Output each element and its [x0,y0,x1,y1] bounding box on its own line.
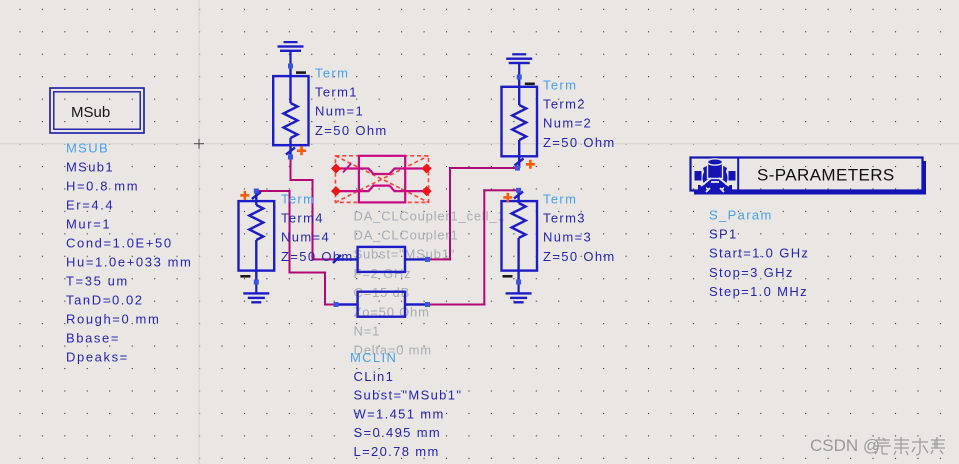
minus Term2 [525,83,535,86]
ghost text DA_CLCoupler1 parameters (deactivated) [354,208,506,357]
coupler inner symbol [336,156,427,203]
svg-text:H=0.8 mm: H=0.8 mm [66,179,139,194]
coupler port diamonds [331,164,432,197]
svg-text:Term3: Term3 [543,211,586,226]
svg-text:Term2: Term2 [543,97,586,112]
term Term3 [502,190,538,282]
svg-text:MSub: MSub [71,104,110,121]
coupler DA_CLCoupler1 deactivated box [335,156,428,203]
svg-text:Term1: Term1 [315,85,358,100]
label Term4 values [281,191,354,264]
svg-text:Subst="MSub1": Subst="MSub1" [354,388,463,403]
axis horizontal line [0,143,959,144]
svg-text:DA_CLCoupler1_cell_1: DA_CLCoupler1_cell_1 [354,208,506,223]
svg-text:Cond=1.0E+50: Cond=1.0E+50 [66,236,173,251]
svg-text:Term4: Term4 [281,211,324,226]
term Term2 [502,77,538,168]
term Term1 [273,66,308,157]
wire W3 Term2 to CLin1 pin2 [428,167,519,260]
node Term3 top [516,188,521,193]
node Term2 bottom [515,166,520,171]
svg-text:Mur=1: Mur=1 [66,217,111,232]
svg-text:TanD=0.02: TanD=0.02 [66,293,144,308]
MSub box [50,88,144,133]
node Term4 top [254,189,259,194]
wire W4 Term3 to CLin1 pin4 [428,189,519,305]
svg-text:Num=1: Num=1 [315,104,364,119]
plus Term2 [526,160,535,169]
svg-text:S_Param: S_Param [709,207,773,222]
svg-text:S-PARAMETERS: S-PARAMETERS [757,166,895,185]
label Term2 values [543,77,616,150]
svg-text:SP1: SP1 [709,227,738,242]
term Term4 [239,191,275,282]
svg-text:Term: Term [281,191,315,206]
svg-text:Bbase=: Bbase= [66,331,120,346]
origin marker [194,139,204,149]
ground G3 Term3 bottom [506,282,532,304]
svg-text:Stop=3 GHz: Stop=3 GHz [709,265,794,280]
node Term2 top [517,75,522,80]
svg-text:F=2 GHz: F=2 GHz [354,266,412,281]
ground G2 Term2 top [506,53,532,77]
svg-text:Term: Term [315,65,349,80]
svg-text:L=20.78 mm: L=20.78 mm [354,444,440,459]
svg-text:Term: Term [543,77,577,92]
plus Term3 [503,193,512,202]
svg-text:Step=1.0 MHz: Step=1.0 MHz [709,284,808,299]
svg-text:Num=4: Num=4 [281,230,330,245]
svg-text:Rough=0 mm: Rough=0 mm [66,312,160,327]
label S_Param values [709,207,809,299]
node Term1 bottom [288,155,293,160]
svg-text:CLin1: CLin1 [354,369,395,384]
svg-text:Start=1.0 GHz: Start=1.0 GHz [709,246,809,261]
node Term1 top [288,64,293,69]
svg-text:Num=2: Num=2 [543,116,592,131]
svg-text:T=35 um: T=35 um [66,274,129,289]
label Term1 values [315,65,388,138]
minus Term1 [296,71,306,74]
svg-text:Z=50 Ohm: Z=50 Ohm [281,249,354,264]
svg-text:Er=4.4: Er=4.4 [66,198,114,213]
svg-text:W=1.451 mm: W=1.451 mm [354,406,445,421]
S-PARAMETERS controller box [691,158,927,195]
svg-text:Num=3: Num=3 [543,230,592,245]
svg-text:Z=50 Ohm: Z=50 Ohm [315,123,388,138]
plus Term1 [297,146,306,155]
coupler pin1 tick [343,164,351,173]
wire W2 Term4 to CLin1 pin3 [256,190,337,306]
svg-text:Z=50 Ohm: Z=50 Ohm [543,249,616,264]
label MSUB parameters [66,141,192,365]
label Term3 values [543,191,616,264]
minus Term4 [240,275,250,278]
svg-text:S=0.495 mm: S=0.495 mm [354,425,442,440]
S-param gear icon U1 [695,159,736,192]
minus Term3 [503,275,513,278]
svg-text:Hu=1.0e+033 mm: Hu=1.0e+033 mm [66,255,192,270]
ground G4 Term4 bottom [243,282,269,304]
plus Term4 [240,191,249,200]
svg-text:Dpeaks=: Dpeaks= [66,350,129,365]
label CLin1 values [350,350,462,459]
svg-text:N=1: N=1 [354,324,381,339]
node Term3 bottom [516,280,521,285]
svg-text:MCLIN: MCLIN [350,350,397,365]
svg-text:MSub1: MSub1 [66,160,114,175]
svg-text:CSDN @: CSDN @ [810,436,880,455]
svg-text:Z=50 Ohm: Z=50 Ohm [543,135,616,150]
ground G1 Term1 top [278,41,304,66]
MCLIN CLin1 symbol [333,247,429,317]
node Term4 bottom [254,280,259,285]
MCLIN node squares [334,257,431,307]
svg-text:Term: Term [543,191,577,206]
svg-text:DA_CLCoupler1: DA_CLCoupler1 [354,228,459,243]
axis vertical line [199,0,200,464]
svg-text:MSUB: MSUB [66,141,109,156]
wire W1 Term1 to CLin1 pin1 [290,157,337,261]
